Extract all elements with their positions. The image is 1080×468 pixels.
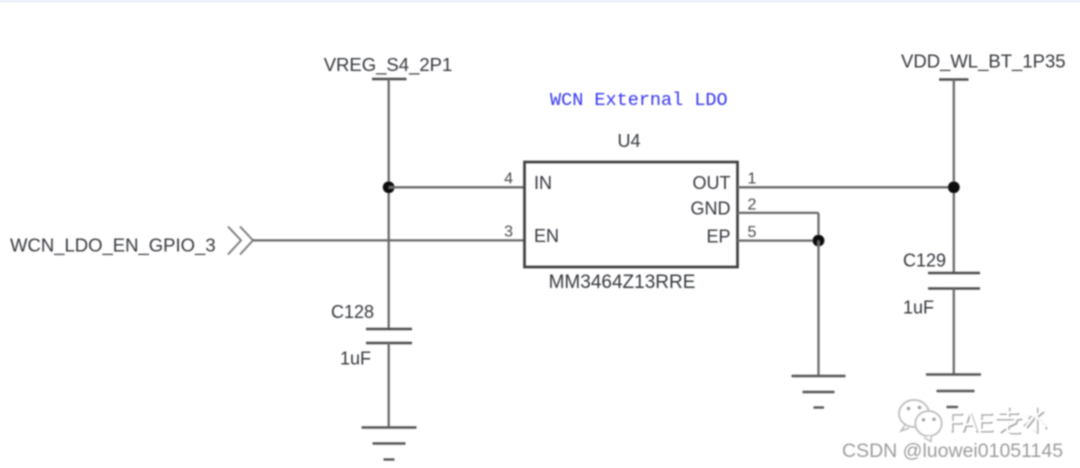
wire OUT (pin 1) — [738, 186, 954, 188]
watermark character LAO (old) — [996, 407, 1022, 434]
svg-text:1uF: 1uF — [340, 349, 371, 369]
wire C128 to ground — [388, 343, 390, 428]
svg-text:GND: GND — [691, 199, 731, 219]
svg-text:2: 2 — [748, 197, 757, 214]
ground symbol below C129 — [926, 375, 981, 408]
svg-text:1uF: 1uF — [903, 298, 934, 318]
svg-text:OUT: OUT — [693, 173, 731, 193]
ground symbol below EP — [792, 376, 846, 408]
capacitor C129 — [928, 273, 980, 289]
wire C129 to ground — [953, 289, 955, 375]
svg-text:VDD_WL_BT_1P35: VDD_WL_BT_1P35 — [901, 51, 1066, 73]
svg-text:VREG_S4_2P1: VREG_S4_2P1 — [324, 54, 453, 76]
watermark text FAE (embossed) — [948, 406, 995, 439]
svg-text:C129: C129 — [903, 251, 946, 271]
svg-text:FAE: FAE — [948, 406, 993, 437]
wire EN (pin 3) — [253, 239, 525, 241]
off-page connector chevron WCN_LDO_EN_GPIO_3 — [228, 227, 253, 255]
watermark character BING (ice) — [1023, 407, 1047, 433]
wire EP node to ground — [817, 241, 819, 376]
svg-text:5: 5 — [748, 224, 757, 241]
svg-text:3: 3 — [504, 224, 513, 241]
svg-text:EN: EN — [534, 226, 559, 246]
svg-text:IN: IN — [534, 173, 552, 193]
junction dot node VREG_S4_2P1 / pin IN — [383, 181, 395, 193]
IC U4 body — [525, 162, 738, 267]
wire GND (pin 2) horizontal — [738, 212, 819, 214]
capacitor C128 — [366, 329, 412, 343]
junction dot node VDD / pin OUT — [948, 181, 960, 193]
svg-text:1: 1 — [748, 171, 757, 188]
wire IN (pin 4) — [389, 186, 525, 188]
watermark WeChat logo — [899, 400, 942, 442]
svg-text:EP: EP — [706, 227, 730, 247]
top edge tint strip — [0, 0, 1080, 3]
junction dot EP/GND node — [813, 235, 825, 247]
wire VDD_WL_BT_1P35 vertical to C129 — [953, 80, 955, 274]
svg-text:WCN External LDO: WCN External LDO — [550, 90, 728, 111]
svg-text:C128: C128 — [331, 302, 374, 322]
svg-text:U4: U4 — [617, 131, 640, 151]
svg-text:4: 4 — [504, 171, 513, 188]
svg-text:MM3464Z13RRE: MM3464Z13RRE — [549, 272, 696, 293]
wire EP (pin 5) — [738, 239, 819, 241]
svg-text:CSDN @luowei01051145: CSDN @luowei01051145 — [842, 440, 1063, 462]
wire VREG_S4_2P1 vertical to C128 — [388, 79, 390, 329]
wire GND (pin 2) vertical drop — [817, 213, 819, 241]
power symbol VREG_S4_2P1 — [372, 78, 407, 81]
power symbol VDD_WL_BT_1P35 — [939, 78, 969, 81]
ground symbol below C128 — [362, 428, 417, 460]
svg-text:WCN_LDO_EN_GPIO_3: WCN_LDO_EN_GPIO_3 — [10, 235, 216, 257]
